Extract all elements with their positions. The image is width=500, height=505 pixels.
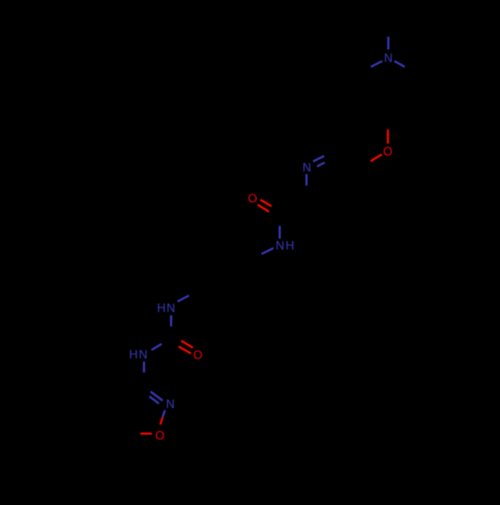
- amide NH: [262, 226, 280, 254]
- svg-text:N: N: [166, 301, 175, 315]
- carbonyl O (amide): [258, 200, 272, 212]
- wire N-C(phenyl) half: [262, 248, 274, 254]
- svg-text:O: O: [193, 348, 202, 362]
- isoxazole N: [149, 392, 165, 417]
- pyridine N: [307, 156, 325, 186]
- wire C=O lower half: [258, 205, 270, 212]
- wire N=C main half: [313, 156, 324, 162]
- wire N-C down half: [305, 174, 307, 186]
- wire C=O upper half: [260, 200, 271, 206]
- wire N-O blue half: [163, 410, 165, 417]
- svg-text:N: N: [139, 348, 148, 362]
- aniline HN: [171, 296, 189, 327]
- wire N-C(=O) up half: [279, 226, 281, 239]
- wire C3=N offset half: [149, 396, 159, 403]
- wire N=C inner half: [317, 163, 325, 167]
- wire N-CH3 stub: [387, 37, 389, 50]
- isoxazole O: [140, 417, 162, 433]
- svg-text:N: N: [166, 397, 175, 411]
- wire N-O red half: [160, 417, 162, 424]
- svg-text:N: N: [276, 239, 285, 253]
- svg-text:H: H: [157, 301, 166, 315]
- wire N-C right half: [394, 61, 404, 67]
- urea carbonyl O: [179, 341, 193, 354]
- wire C=O upper half: [181, 341, 193, 348]
- wire N-C(=O) half: [152, 344, 162, 350]
- wire O-C5 half: [140, 433, 151, 435]
- wire N-C(isoxazole) half: [143, 362, 145, 373]
- svg-text:O: O: [383, 144, 392, 158]
- urea HN (isoxazole side): [144, 344, 162, 373]
- wire O-C(aryl) half: [371, 154, 382, 161]
- amine N (top-right, N-methyl): [371, 37, 405, 67]
- svg-text:N: N: [384, 51, 393, 65]
- wire C-O vertical half: [387, 129, 389, 143]
- svg-text:N: N: [302, 161, 311, 175]
- wire N-C(phenyl) half: [178, 296, 190, 302]
- svg-text:O: O: [248, 192, 257, 206]
- svg-text:O: O: [155, 429, 164, 443]
- wire N-C left half: [371, 61, 382, 67]
- wire N-C(urea) half: [170, 315, 172, 326]
- wire C=O lower half: [179, 347, 192, 354]
- wire C3=N main half: [151, 392, 163, 401]
- svg-text:H: H: [129, 348, 138, 362]
- ether O: [371, 129, 388, 161]
- svg-text:H: H: [286, 239, 295, 253]
